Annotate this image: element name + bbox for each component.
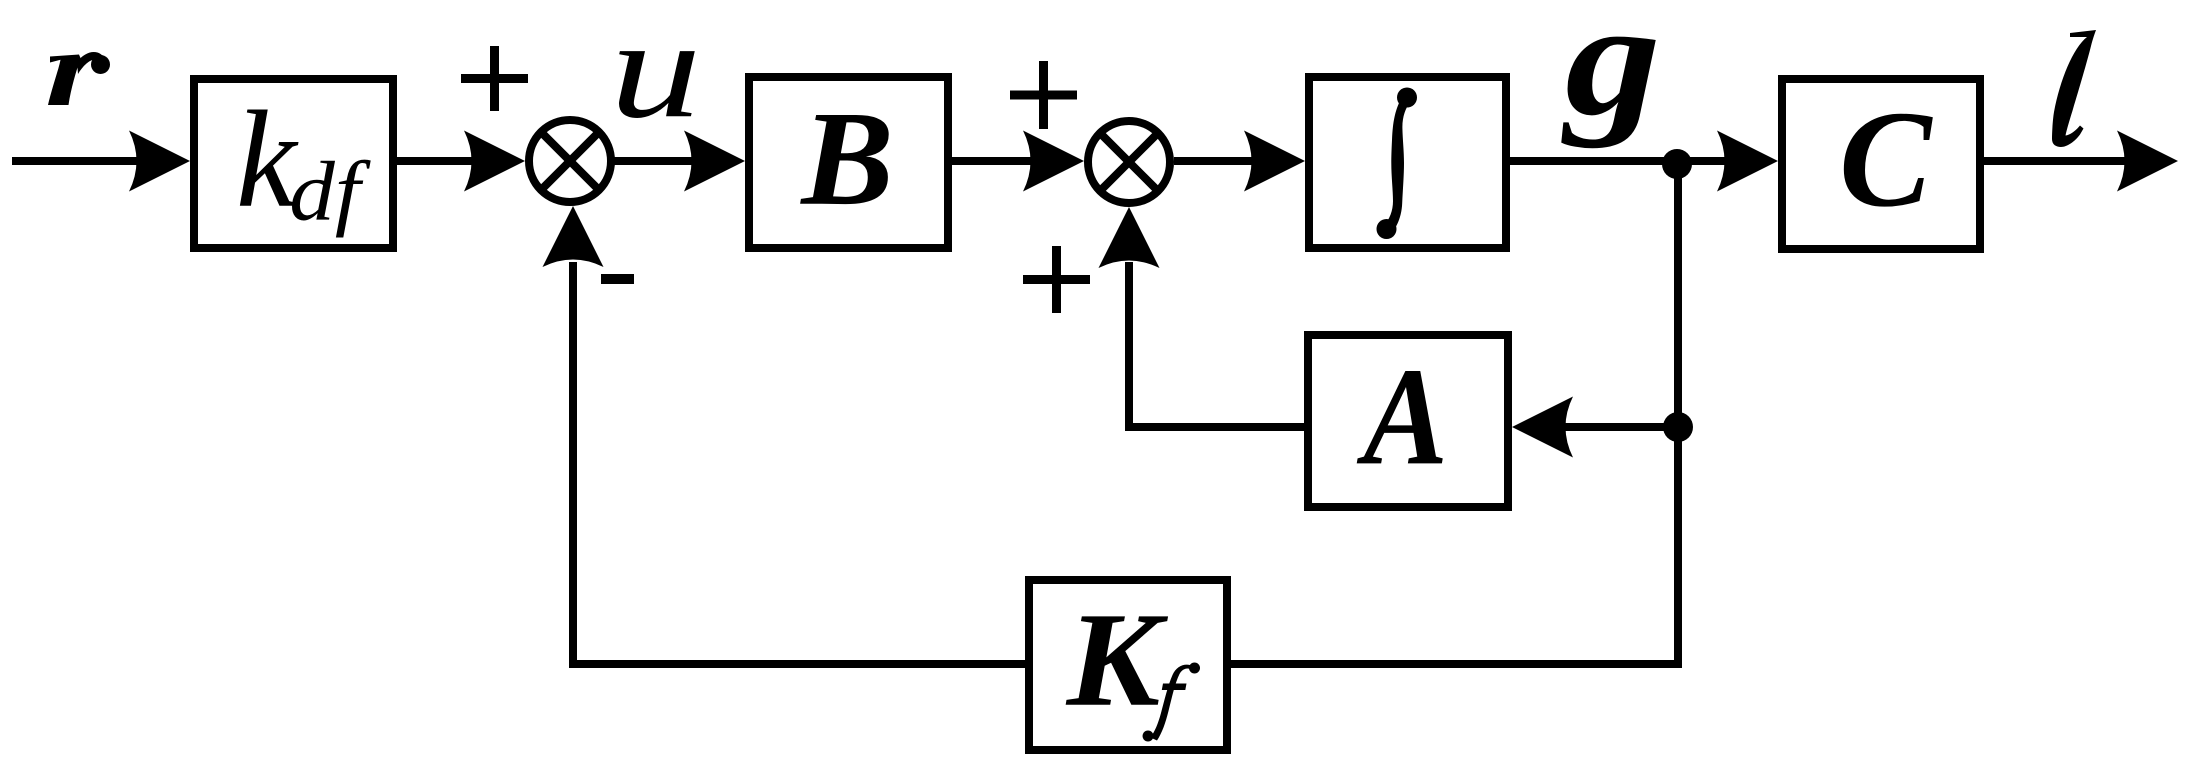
label f subscript bbox=[1143, 663, 1201, 742]
label B bbox=[799, 83, 893, 233]
plus sign at sum1 bbox=[461, 46, 528, 111]
block C bbox=[1782, 79, 1980, 249]
wire kdf to sum1 bbox=[397, 157, 490, 165]
arrowhead into sum1 bbox=[464, 131, 525, 192]
label l bbox=[2052, 30, 2096, 147]
block Kf bbox=[1029, 580, 1227, 750]
wire branch to A bbox=[1560, 423, 1678, 431]
label C bbox=[1839, 82, 1933, 235]
minus sign at sum1 bbox=[601, 274, 634, 284]
plus sign at sum2 top bbox=[1010, 61, 1077, 129]
arrowhead into sum2 bbox=[1023, 131, 1084, 192]
svg-text:A: A bbox=[1357, 339, 1448, 494]
arrowhead into integrator bbox=[1244, 131, 1305, 192]
wire node down to A branch bbox=[1674, 161, 1682, 427]
block kdf bbox=[194, 79, 393, 248]
node dot on main line bbox=[1662, 149, 1692, 179]
wire node down to Kf bbox=[1231, 427, 1678, 664]
block A bbox=[1308, 335, 1508, 507]
summing junction S2 bbox=[1088, 121, 1170, 203]
label u bbox=[610, 0, 701, 148]
arrowhead into B bbox=[684, 131, 745, 192]
wire C to output bbox=[1984, 157, 2125, 165]
label K of Kf bbox=[1065, 584, 1169, 734]
svg-text:u: u bbox=[610, 0, 701, 148]
summing junction S1 bbox=[529, 120, 611, 202]
wire integrator to C with node bbox=[1510, 157, 1735, 165]
output arrowhead bbox=[2117, 131, 2178, 192]
label k of kdf bbox=[236, 82, 299, 236]
arrowhead into A bbox=[1512, 397, 1573, 458]
label g bbox=[1561, 0, 1661, 149]
wire B to sum2 bbox=[952, 157, 1045, 165]
svg-text:B: B bbox=[799, 83, 893, 233]
arrowhead into sum1 from below bbox=[543, 206, 604, 267]
svg-text:K: K bbox=[1065, 584, 1169, 734]
svg-text:C: C bbox=[1839, 82, 1933, 235]
wire A to sum2 bbox=[1129, 262, 1304, 427]
svg-text:g: g bbox=[1561, 0, 1661, 149]
arrowhead into sum2 from below bbox=[1099, 207, 1160, 268]
label df subscript bbox=[289, 146, 371, 239]
label A bbox=[1357, 339, 1448, 494]
label r bbox=[48, 52, 110, 105]
node dot at A branch bbox=[1663, 412, 1693, 442]
wire sum1 to B bbox=[611, 157, 700, 165]
label integral sign bbox=[1377, 88, 1418, 240]
wire Kf to sum1 feedback bbox=[573, 262, 1025, 664]
wire input r line bbox=[12, 157, 150, 165]
block B bbox=[749, 77, 948, 248]
svg-text:df: df bbox=[289, 146, 371, 239]
arrowhead into C bbox=[1717, 131, 1778, 192]
block integrator bbox=[1309, 77, 1506, 248]
arrowhead into kdf bbox=[129, 131, 190, 192]
plus sign at sum2 bottom bbox=[1023, 246, 1090, 313]
wire sum2 to integrator bbox=[1174, 157, 1262, 165]
